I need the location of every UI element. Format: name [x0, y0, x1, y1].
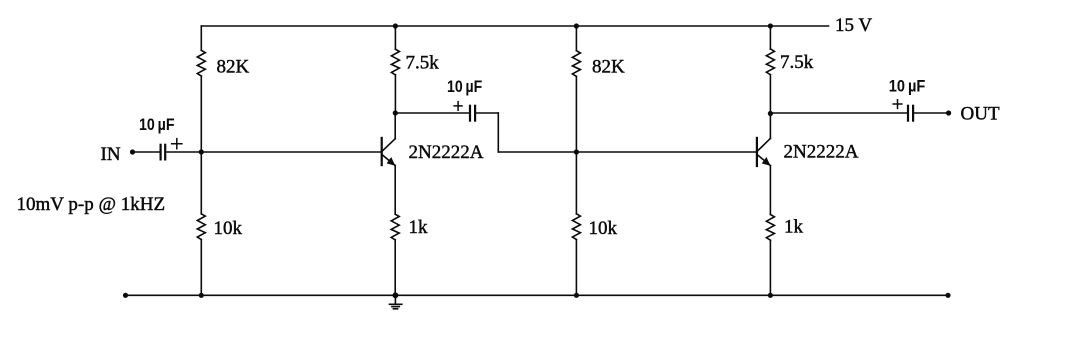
node top rail dot branch2: [393, 23, 398, 28]
svg-text:10 µF: 10 µF: [889, 76, 926, 95]
wire base line stage1: [166, 151, 381, 153]
wire vertical drop to base line: [497, 113, 499, 152]
transistor Q1 collector diagonal: [382, 139, 395, 151]
wire branch2 vertical to collector: [394, 75, 396, 113]
svg-text:15 V: 15 V: [835, 15, 872, 36]
svg-text:10k: 10k: [214, 218, 243, 239]
wire bottom ground rail: [126, 294, 949, 296]
transistor Q2 collector vertical: [769, 114, 771, 139]
wire branch3 vertical middle: [575, 76, 577, 213]
capacitor C2 plus sign: [454, 102, 462, 111]
capacitor C1 plus sign: [172, 139, 182, 149]
resistor R5 82K: [572, 51, 580, 77]
node top rail dot branch3: [574, 23, 579, 28]
ground bar1: [389, 303, 401, 305]
resistor R6 10k: [572, 214, 580, 240]
wire branch4 emitter bottom: [769, 240, 771, 295]
svg-text:7.5k: 7.5k: [406, 52, 440, 73]
node bottom rail dot branch1: [199, 293, 204, 298]
capacitor C1 10uF plate right: [164, 145, 166, 160]
wire top supply rail: [201, 25, 828, 27]
node bottom rail dot branch3: [574, 293, 579, 298]
node collector1 dot: [393, 110, 398, 115]
node collector2 dot: [768, 111, 773, 116]
capacitor C1 10uF plate left: [160, 145, 162, 160]
node base1 junction dot: [199, 149, 204, 154]
transistor Q1 emitter diagonal: [382, 155, 395, 166]
capacitor C2 10uF plate right: [474, 106, 476, 121]
svg-text:10 µF: 10 µF: [139, 115, 175, 134]
transistor Q1 collector vertical: [394, 113, 396, 139]
wire branch1 vertical top: [200, 26, 202, 50]
ground bar2: [392, 306, 399, 308]
transistor Q2 emitter arrow: [762, 157, 771, 166]
ground stub: [394, 295, 396, 304]
node base2 junction dot: [574, 149, 579, 154]
transistor Q2 base bar: [756, 138, 758, 166]
transistor Q1 emitter vertical: [394, 166, 396, 215]
node bottom rail dot branch4: [768, 293, 773, 298]
capacitor C2 10uF plate left: [469, 106, 471, 121]
svg-text:10 µF: 10 µF: [447, 77, 482, 96]
capacitor C3 10uF plate left: [907, 106, 909, 121]
svg-text:1k: 1k: [409, 217, 429, 238]
wire branch2 emitter bottom: [394, 240, 396, 295]
node bottom rail left end dot: [123, 293, 128, 298]
svg-text:10k: 10k: [589, 218, 618, 239]
wire after C2: [476, 112, 498, 114]
svg-text:82K: 82K: [217, 57, 250, 78]
wire branch1 vertical middle: [200, 76, 202, 214]
node ground junction dot: [393, 292, 399, 298]
wire base line stage2: [498, 151, 756, 153]
resistor R1 82K: [197, 50, 205, 76]
transistor Q2 emitter vertical: [769, 166, 771, 215]
wire collector1 horizontal: [395, 112, 468, 114]
wire input segment: [133, 151, 159, 153]
transistor Q2 emitter diagonal: [758, 155, 771, 166]
node input dot: [130, 149, 135, 154]
resistor R7 1k: [766, 215, 774, 241]
wire branch2 vertical top: [394, 26, 396, 49]
svg-text:2N2222A: 2N2222A: [784, 142, 859, 163]
svg-text:1k: 1k: [784, 216, 804, 237]
wire after C3 to OUT: [914, 112, 948, 114]
resistor R8 7.5k: [766, 49, 774, 75]
node bottom rail right end dot: [945, 293, 950, 298]
wire branch4 vertical top: [769, 26, 771, 49]
transistor Q1 emitter arrow: [387, 157, 396, 166]
transistor Q2 collector diagonal: [758, 138, 771, 151]
ground bar3: [393, 308, 397, 310]
svg-text:82K: 82K: [592, 57, 625, 78]
wire branch3 vertical bottom: [575, 240, 577, 296]
resistor R2 10k: [197, 214, 205, 240]
resistor R3 1k: [391, 214, 399, 240]
svg-text:IN: IN: [101, 144, 121, 165]
wire collector2 horizontal: [770, 112, 906, 114]
node top rail dot branch4: [768, 23, 773, 28]
wire branch1 vertical bottom: [200, 240, 202, 296]
capacitor C3 10uF plate right: [912, 106, 914, 121]
transistor Q1 base bar: [381, 138, 383, 165]
node OUT dot: [946, 110, 951, 115]
wire branch3 vertical top: [575, 26, 577, 51]
svg-text:OUT: OUT: [961, 104, 1000, 125]
capacitor C3 plus sign: [893, 100, 902, 109]
svg-text:2N2222A: 2N2222A: [409, 142, 484, 163]
svg-text:7.5k: 7.5k: [780, 52, 814, 73]
wire branch4 vertical to collector: [769, 75, 771, 114]
svg-text:10mV p-p @ 1kHZ: 10mV p-p @ 1kHZ: [17, 194, 166, 215]
resistor R4 7.5k: [391, 49, 399, 75]
